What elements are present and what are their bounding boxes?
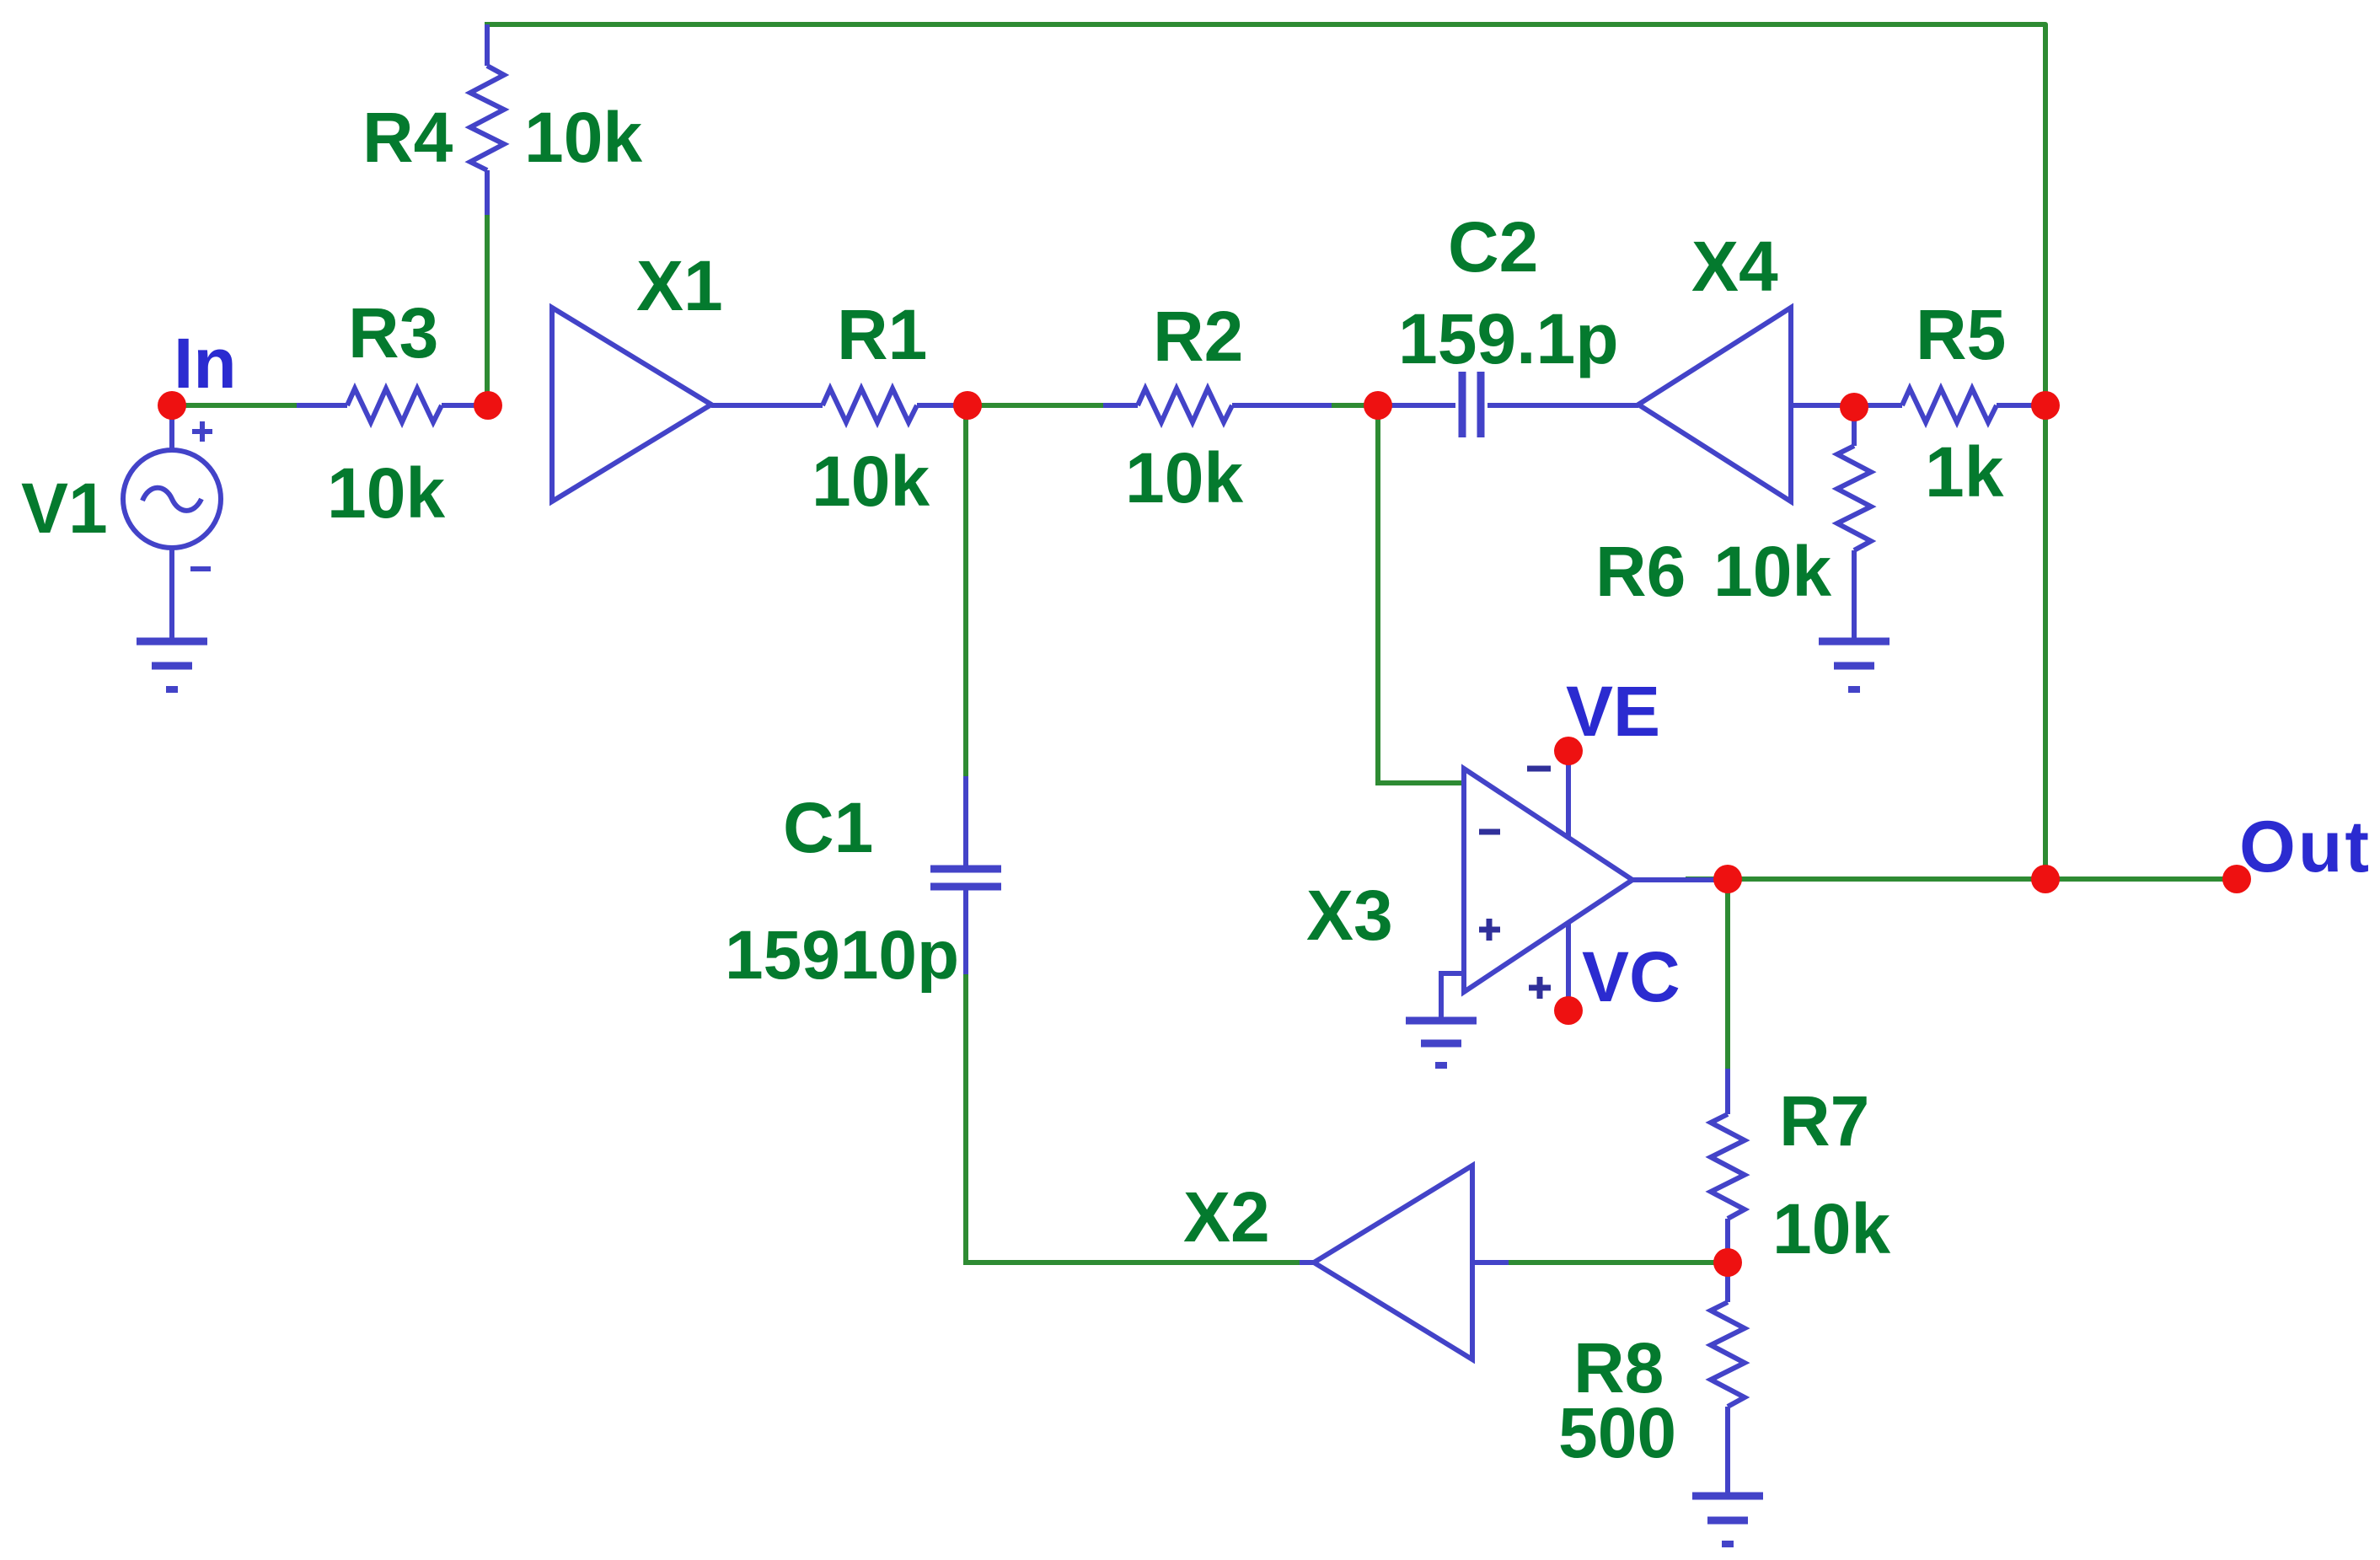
junction X4/R5/R6 bbox=[1840, 393, 1868, 421]
label R8 value 500 bbox=[1558, 1393, 1676, 1472]
label R1 bbox=[837, 295, 927, 374]
label R8 bbox=[1573, 1328, 1664, 1407]
capacitor C1 (vertical) bbox=[930, 776, 1001, 974]
svg-text:500: 500 bbox=[1558, 1393, 1676, 1472]
label X2 bbox=[1183, 1177, 1270, 1257]
resistor R3 bbox=[297, 389, 488, 422]
node Out label bbox=[2239, 807, 2372, 887]
wire X3 output node down to R7 bbox=[1725, 879, 1730, 1069]
resistor R2 bbox=[1103, 389, 1332, 422]
label R2 bbox=[1153, 297, 1243, 376]
label X1 bbox=[636, 246, 723, 325]
junction X3 output bbox=[1713, 865, 1742, 893]
svg-text:X4: X4 bbox=[1691, 227, 1778, 306]
label X4 bbox=[1691, 227, 1778, 306]
svg-text:15910p: 15910p bbox=[725, 917, 959, 994]
label R1 value 10k bbox=[812, 442, 930, 521]
svg-text:In: In bbox=[174, 324, 237, 403]
wire R2 to C2 node bbox=[1332, 403, 1378, 408]
junction VE bbox=[1554, 737, 1583, 765]
svg-text:VC: VC bbox=[1582, 937, 1680, 1016]
node In label bbox=[174, 324, 237, 403]
buffer X1 bbox=[552, 308, 711, 501]
svg-text:V1: V1 bbox=[21, 469, 108, 548]
resistor R7 (vertical) bbox=[1711, 1069, 1745, 1262]
junction R5/right column bbox=[2031, 391, 2060, 420]
svg-text:X3: X3 bbox=[1306, 876, 1393, 955]
wire X3 output to Out terminal bbox=[1686, 876, 2237, 882]
resistor R6 (vertical) bbox=[1837, 405, 1871, 641]
junction R3/R4/X1 bbox=[474, 391, 502, 420]
svg-text:R7: R7 bbox=[1779, 1081, 1869, 1161]
junction VC bbox=[1554, 996, 1583, 1025]
svg-text:X1: X1 bbox=[636, 246, 723, 325]
svg-text:R1: R1 bbox=[837, 295, 927, 374]
junction R1/C1 bbox=[953, 391, 982, 420]
junction In bbox=[158, 391, 186, 420]
label C2 bbox=[1448, 207, 1538, 287]
resistor R1 bbox=[711, 389, 968, 422]
ground (V1) bbox=[137, 641, 207, 689]
node VC label bbox=[1582, 937, 1680, 1016]
label C1 value 15910p bbox=[725, 917, 959, 994]
wire node A down to X3 minus input bbox=[1378, 405, 1461, 783]
label V1 bbox=[21, 469, 108, 548]
label R2 value 10k bbox=[1125, 438, 1243, 517]
svg-text:Out: Out bbox=[2239, 807, 2372, 887]
op-amp X3 bbox=[1441, 751, 1728, 1021]
label C2 value 159.1p bbox=[1398, 299, 1619, 378]
svg-text:10k: 10k bbox=[1713, 532, 1831, 611]
svg-text:C2: C2 bbox=[1448, 207, 1538, 287]
svg-text:1k: 1k bbox=[1925, 432, 2004, 512]
label R4 value 10k bbox=[524, 98, 642, 177]
buffer X4 bbox=[1638, 308, 1854, 501]
label R6 bbox=[1595, 532, 1686, 611]
ground (X3 + input) bbox=[1406, 1021, 1477, 1065]
wire top feedback from R4 to right column bbox=[485, 24, 2045, 879]
svg-text:10k: 10k bbox=[1125, 438, 1243, 517]
resistor R8 (vertical) bbox=[1711, 1262, 1745, 1496]
wire R1 to R2 bbox=[968, 403, 1103, 408]
svg-text:10k: 10k bbox=[1772, 1189, 1890, 1268]
wire R4 column (node to R4 bottom lead) bbox=[485, 215, 490, 405]
svg-text:10k: 10k bbox=[327, 453, 445, 533]
capacitor C2 bbox=[1378, 372, 1638, 437]
wire C1 column upper (R1 node down to C1) bbox=[963, 405, 968, 776]
label R5 bbox=[1916, 295, 2006, 374]
label X3 bbox=[1306, 876, 1393, 955]
wire X2 input from R7/R8 node bbox=[1509, 1260, 1728, 1265]
svg-text:159.1p: 159.1p bbox=[1398, 299, 1619, 378]
wire In node to R3 bbox=[172, 403, 297, 408]
node VE label bbox=[1566, 672, 1660, 751]
svg-text:C1: C1 bbox=[783, 788, 873, 867]
svg-text:10k: 10k bbox=[524, 98, 642, 177]
svg-text:10k: 10k bbox=[812, 442, 930, 521]
voltage source V1 bbox=[123, 405, 221, 641]
wire C1 column lower to X2 row bbox=[966, 974, 1300, 1262]
buffer X2 bbox=[1300, 1166, 1509, 1359]
junction right column / Out row bbox=[2031, 865, 2060, 893]
svg-text:X2: X2 bbox=[1183, 1177, 1270, 1257]
label R6 value 10k bbox=[1713, 532, 1831, 611]
label R5 value 1k bbox=[1925, 432, 2004, 512]
label R3 bbox=[348, 293, 438, 373]
svg-text:R4: R4 bbox=[362, 98, 453, 177]
ground (R8) bbox=[1692, 1496, 1763, 1544]
junction R2/C2/X3 bbox=[1364, 391, 1392, 420]
svg-text:VE: VE bbox=[1566, 672, 1660, 751]
junction Out terminal bbox=[2222, 865, 2251, 893]
label C1 bbox=[783, 788, 873, 867]
ground (R6) bbox=[1819, 641, 1890, 689]
svg-text:R6: R6 bbox=[1595, 532, 1686, 611]
svg-text:R5: R5 bbox=[1916, 295, 2006, 374]
junction R7/R8/X2 bbox=[1713, 1248, 1742, 1277]
label R7 bbox=[1779, 1081, 1869, 1161]
label R3 value 10k bbox=[327, 453, 445, 533]
svg-text:R3: R3 bbox=[348, 293, 438, 373]
resistor R4 (vertical) bbox=[470, 24, 504, 215]
svg-text:R2: R2 bbox=[1153, 297, 1243, 376]
label R7 value 10k bbox=[1772, 1189, 1890, 1268]
resistor R5 bbox=[1854, 389, 2045, 422]
label R4 bbox=[362, 98, 453, 177]
